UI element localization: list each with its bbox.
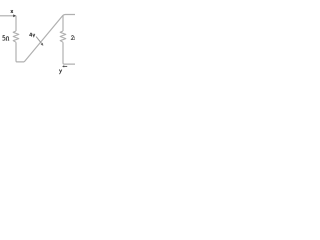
- label y (drawn): [59, 70, 62, 74]
- label 4v: digit 4: [30, 33, 33, 37]
- wire: right vertical top: [62, 15, 64, 31]
- resistor 2ohm zigzag: [60, 31, 66, 42]
- current arrow y head: [62, 65, 64, 67]
- current arrow x (arrowhead): [13, 14, 16, 17]
- wire: diagonal: [24, 15, 75, 62]
- label 4v: v: [33, 34, 35, 37]
- resistor 5ohm zigzag: [13, 31, 19, 42]
- wire: left vertical top: [15, 16, 17, 31]
- label 5ohm: digit 5: [3, 35, 6, 40]
- current arrow y shaft: [64, 65, 68, 67]
- wire: left input stub: [0, 15, 14, 17]
- wire: right vertical bottom + bottom-right corner: [63, 42, 75, 64]
- arrow 4v shaft crossing diagonal: [36, 37, 42, 45]
- wire: left vertical bottom + bottom-left corner: [16, 42, 24, 62]
- arrow 4v head: [41, 43, 44, 46]
- label 2ohm: omega (clipped at edge): [74, 36, 77, 40]
- label x (drawn): [11, 10, 13, 13]
- label 5ohm: omega: [6, 37, 9, 41]
- label 2ohm: digit 2: [71, 36, 73, 40]
